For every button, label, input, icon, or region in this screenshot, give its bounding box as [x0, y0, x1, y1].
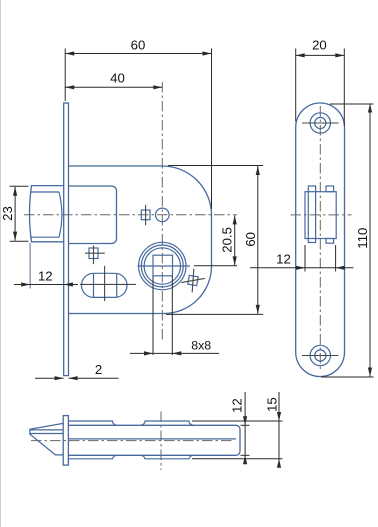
svg-text:12: 12 — [38, 268, 53, 283]
svg-text:60: 60 — [243, 232, 258, 247]
svg-text:60: 60 — [131, 37, 146, 52]
svg-text:15: 15 — [265, 397, 280, 412]
svg-text:20.5: 20.5 — [220, 227, 235, 253]
svg-text:8x8: 8x8 — [191, 338, 211, 352]
svg-text:20: 20 — [312, 38, 327, 53]
svg-text:23: 23 — [0, 206, 15, 221]
svg-text:110: 110 — [355, 228, 370, 249]
svg-text:40: 40 — [110, 71, 125, 86]
svg-text:12: 12 — [276, 252, 291, 267]
svg-text:12: 12 — [230, 398, 245, 413]
svg-text:2: 2 — [95, 362, 102, 377]
